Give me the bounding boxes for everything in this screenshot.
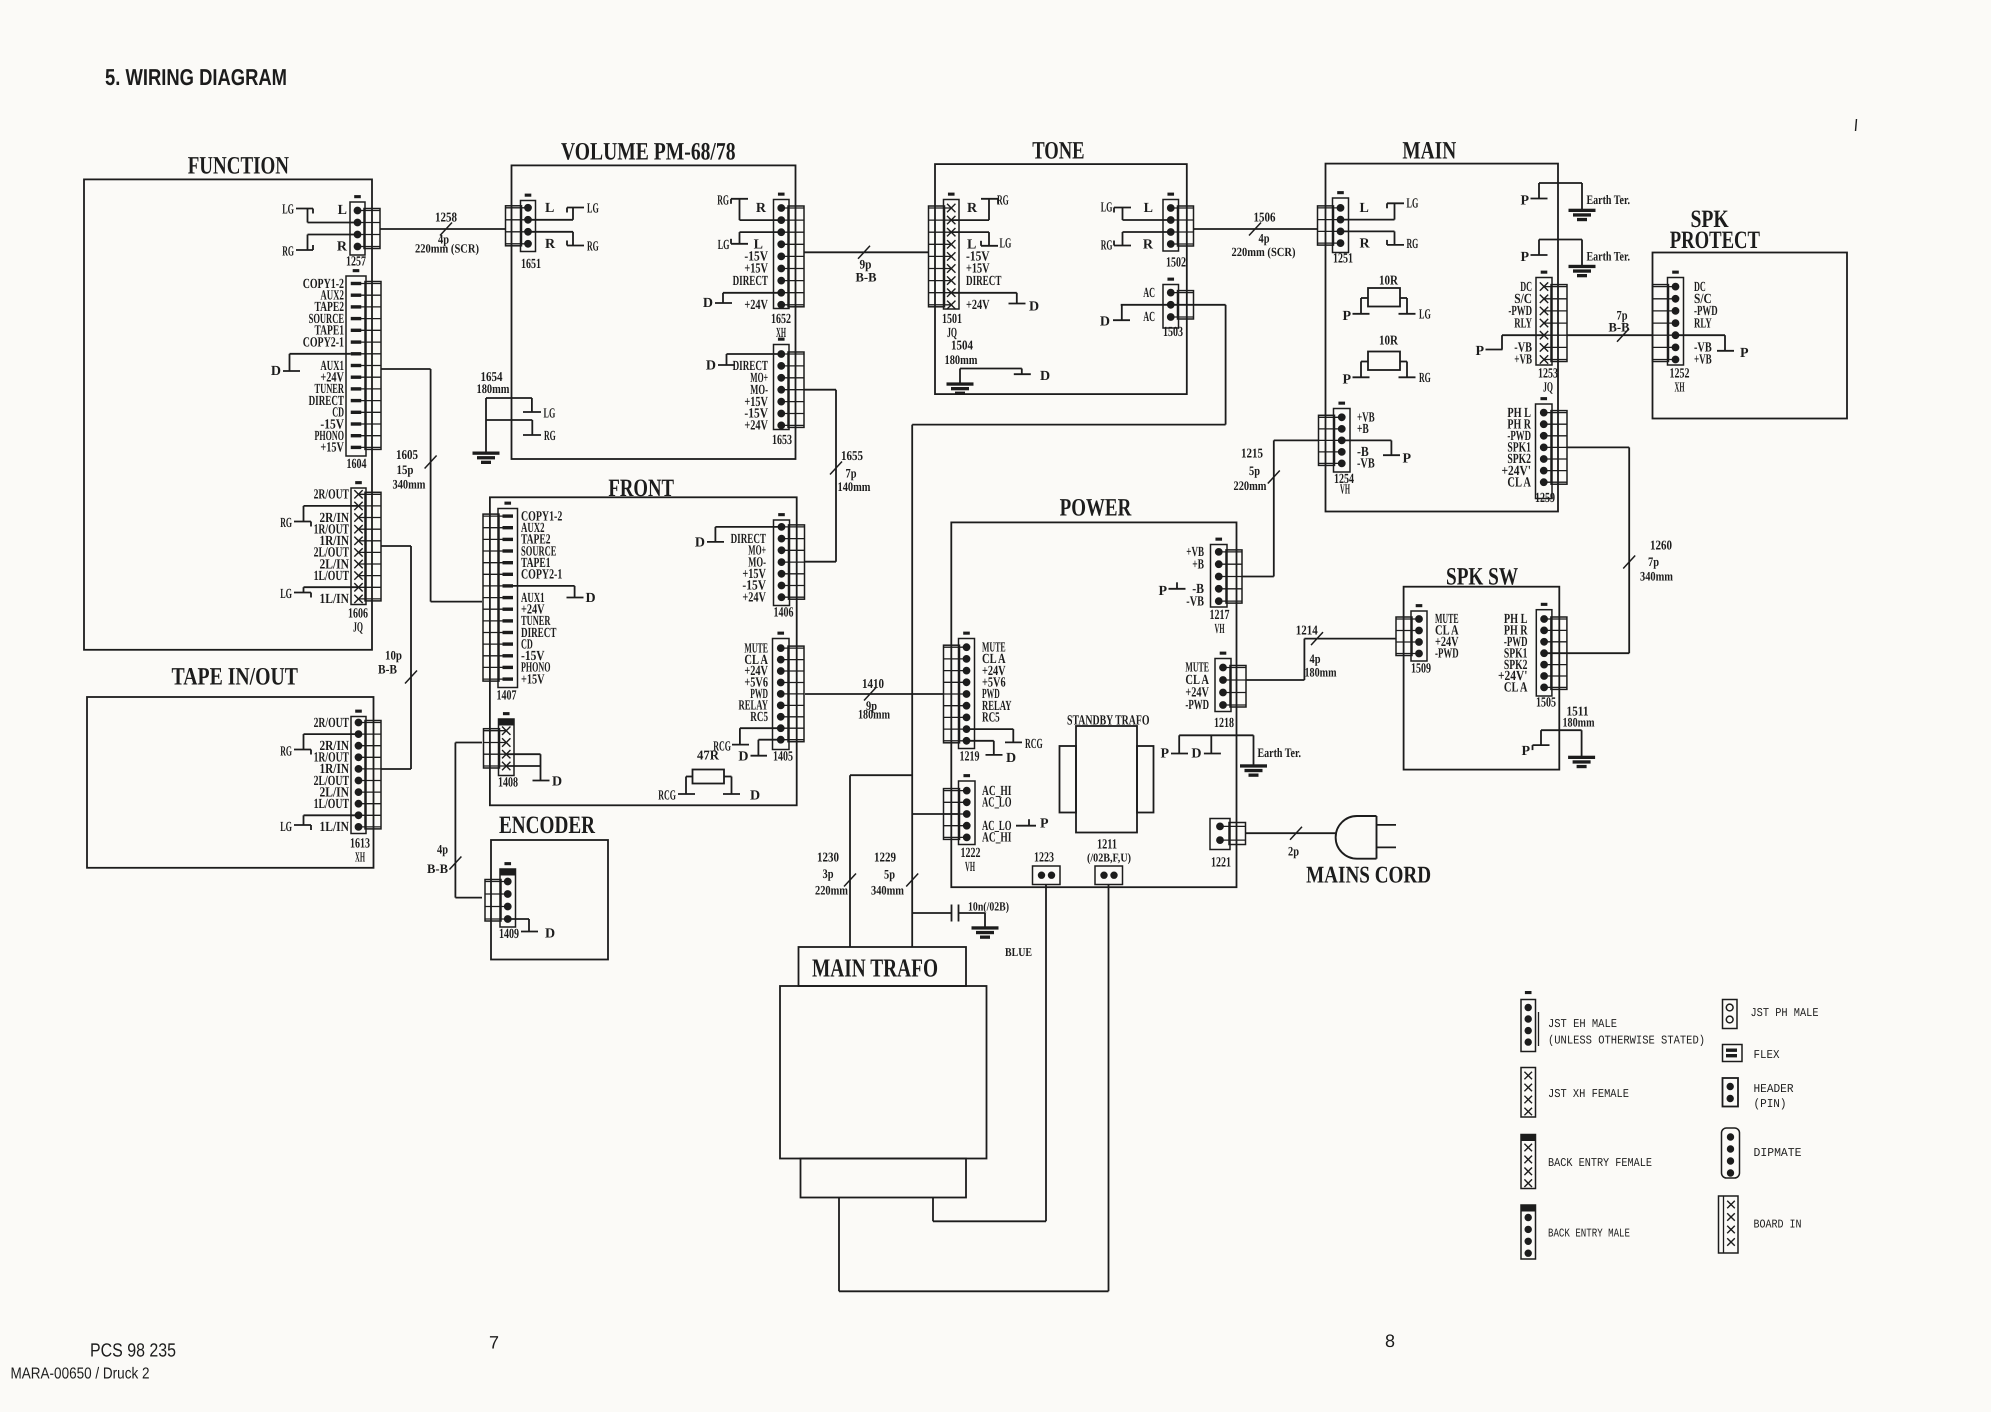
node RCG (1219 pin8)	[967, 729, 1043, 752]
svg-text:D: D	[1040, 369, 1050, 384]
svg-text:1410: 1410	[862, 676, 884, 691]
node LG (1502)	[1101, 201, 1172, 221]
svg-text:COPY2-1: COPY2-1	[521, 568, 562, 583]
svg-text:220mm (SCR): 220mm (SCR)	[1232, 245, 1296, 259]
svg-text:1222: 1222	[961, 846, 981, 861]
cable 7p B-B wire	[1568, 334, 1653, 336]
connector 1652 (JST XH male 9p)	[774, 193, 805, 308]
resistor 10R lower	[1353, 352, 1416, 378]
svg-text:AC: AC	[1143, 286, 1155, 301]
connector 1253 (JST XH female 7p JQ)	[1536, 271, 1567, 365]
svg-text:180mm: 180mm	[858, 707, 890, 722]
svg-text:+24V: +24V	[742, 590, 766, 605]
node D (1653 pin1)	[706, 354, 782, 373]
svg-text:FUNCTION: FUNCTION	[188, 153, 289, 180]
cable 1506 wire	[1194, 228, 1317, 230]
svg-text:P: P	[1520, 194, 1529, 209]
svg-text:LG: LG	[718, 238, 730, 253]
svg-text:JQ: JQ	[353, 621, 363, 636]
svg-text:DIRECT: DIRECT	[966, 274, 1002, 289]
svg-text:1L/IN: 1L/IN	[320, 592, 350, 607]
legend HEADER (PIN) symbol	[1723, 1078, 1739, 1107]
svg-text:1653: 1653	[772, 433, 792, 448]
svg-text:47R: 47R	[697, 748, 719, 763]
svg-text:P: P	[1342, 373, 1351, 388]
svg-text:VH: VH	[1215, 622, 1225, 637]
connector 1254 (VH male 5p)	[1319, 402, 1351, 472]
connector 1503 (JST EH male 3p)	[1163, 278, 1194, 328]
node D (1405 pin9)	[738, 740, 781, 765]
svg-text:D: D	[1100, 314, 1110, 329]
svg-text:340mm: 340mm	[1640, 569, 1673, 584]
svg-text:1219: 1219	[960, 750, 980, 765]
svg-text:RG: RG	[544, 429, 556, 444]
svg-text:LG: LG	[282, 202, 294, 217]
mains plug	[1336, 816, 1396, 859]
wire SPK1 out (1505)	[1544, 652, 1629, 654]
cable 4p B-B slash	[449, 857, 461, 870]
svg-text:340mm: 340mm	[871, 883, 904, 898]
svg-text:1230: 1230	[817, 850, 839, 865]
cable 1258 wire	[380, 228, 506, 230]
transformer STANDBY TRAFO	[1060, 726, 1154, 833]
cable 9p B-B slash	[858, 246, 870, 259]
svg-text:220mm (SCR): 220mm (SCR)	[415, 242, 479, 256]
svg-text:MARA-00650 / Druck 2: MARA-00650 / Druck 2	[11, 1366, 150, 1383]
svg-text:B-B: B-B	[427, 861, 448, 876]
connector 1211 (2p header)	[1095, 866, 1123, 885]
svg-text:15p: 15p	[397, 462, 414, 477]
node D (1407 pin7)	[512, 586, 596, 606]
svg-text:RG: RG	[282, 245, 294, 260]
wire 1504 shield	[960, 369, 1031, 383]
svg-text:1506: 1506	[1254, 210, 1276, 225]
svg-text:RG: RG	[280, 516, 292, 531]
svg-text:1215: 1215	[1241, 445, 1263, 460]
svg-text:1503: 1503	[1163, 325, 1183, 340]
connector 1405 (JST EH male 9p)	[773, 632, 805, 749]
svg-text:XH: XH	[1675, 381, 1685, 396]
svg-text:RG: RG	[717, 194, 729, 209]
svg-text:SPK SW: SPK SW	[1446, 564, 1518, 591]
svg-text:Earth Ter.: Earth Ter.	[1587, 192, 1631, 207]
svg-text:P: P	[1040, 817, 1049, 832]
svg-text:D: D	[552, 775, 562, 790]
transformer MAIN TRAFO body	[780, 986, 987, 1159]
svg-text:D: D	[545, 927, 555, 942]
legend BACK ENTRY FEMALE symbol	[1521, 1135, 1536, 1189]
svg-text:ENCODER: ENCODER	[499, 812, 596, 839]
svg-text:1502: 1502	[1166, 256, 1186, 271]
svg-text:-PWD: -PWD	[1435, 647, 1459, 662]
svg-text:POWER: POWER	[1060, 495, 1132, 522]
connector 1223 (2p header)	[1033, 866, 1061, 885]
ground 1511	[1569, 756, 1595, 758]
svg-text:5p: 5p	[884, 867, 895, 882]
connector 1505 (JST EH male 7p)	[1536, 603, 1567, 696]
node RG (1606)	[280, 506, 358, 531]
cable 1260 slash	[1623, 556, 1635, 569]
svg-text:180mm: 180mm	[477, 381, 510, 396]
svg-text:10R: 10R	[1379, 333, 1398, 348]
svg-text:P: P	[1740, 346, 1749, 361]
board box TAPE IN/OUT	[87, 697, 374, 868]
svg-text:JST PH MALE: JST PH MALE	[1751, 1006, 1819, 1020]
svg-text:D: D	[271, 364, 281, 379]
svg-text:CL A: CL A	[1507, 475, 1531, 490]
svg-text:P: P	[1403, 452, 1412, 467]
connector 1653 (JST EH male 7p)	[774, 338, 805, 429]
svg-text:Earth Ter.: Earth Ter.	[1258, 745, 1302, 760]
connector 1502 (JST EH male 4p)	[1163, 193, 1194, 251]
svg-text:L: L	[1144, 201, 1153, 216]
earth terminal 1 wire	[1531, 183, 1583, 209]
svg-text:1L/OUT: 1L/OUT	[314, 569, 350, 584]
node LG (1251)	[1341, 197, 1418, 220]
connector 1217 (VH male 5p)	[1211, 538, 1243, 607]
node D (1652 pin8)	[703, 293, 782, 311]
board box FRONT	[490, 497, 797, 805]
svg-text:1257: 1257	[346, 255, 366, 270]
cable 2p slash	[1290, 827, 1302, 840]
cable 1605 wire	[381, 369, 482, 602]
node LG (1501)	[952, 232, 1012, 251]
svg-text:+15V: +15V	[521, 672, 545, 687]
connector 1219 (JST EH male 9p)	[944, 632, 975, 748]
svg-text:+24V: +24V	[744, 298, 768, 313]
svg-text:P: P	[1521, 744, 1530, 759]
svg-text:RCG: RCG	[1025, 737, 1043, 752]
svg-text:MAIN TRAFO: MAIN TRAFO	[812, 954, 938, 983]
svg-text:P: P	[1475, 344, 1484, 359]
cable 9p B-B wire	[805, 251, 929, 253]
node D (1219 pin9)	[967, 741, 1016, 766]
cable 1605 slash	[425, 456, 437, 469]
connector 1251 (JST EH male 4p)	[1318, 192, 1349, 253]
connector 1606 (JST XH female 10p JQ)	[351, 482, 381, 605]
svg-text:180mm: 180mm	[1305, 665, 1337, 680]
node D (1501 pin8)	[952, 293, 1040, 315]
cable 1260 wire	[1568, 447, 1630, 653]
connector 1407 (board-in 15p)	[483, 502, 518, 687]
svg-text:1405: 1405	[773, 750, 793, 765]
svg-text:RC5: RC5	[750, 710, 768, 725]
svg-text:D: D	[750, 789, 760, 804]
svg-text:VOLUME PM-68/78: VOLUME PM-68/78	[561, 139, 736, 166]
legend DIPMATE symbol	[1722, 1128, 1740, 1178]
node D (1408)	[506, 754, 562, 789]
svg-text:1409: 1409	[499, 927, 519, 942]
svg-text:+B: +B	[1357, 422, 1369, 437]
legend JST PH MALE symbol	[1723, 1000, 1738, 1029]
svg-text:1605: 1605	[396, 447, 418, 462]
svg-text:+VB: +VB	[1694, 353, 1712, 368]
svg-text:1260: 1260	[1650, 538, 1672, 553]
svg-text:R: R	[967, 201, 978, 216]
cable 10p B-B slash	[405, 671, 417, 684]
svg-text:5. WIRING DIAGRAM: 5. WIRING DIAGRAM	[105, 64, 287, 90]
svg-text:FLEX: FLEX	[1754, 1048, 1780, 1062]
cable 1229 wire	[911, 814, 913, 947]
cable 1215 wire	[1243, 440, 1319, 576]
svg-text:1217: 1217	[1210, 608, 1230, 623]
node RG (1651)	[528, 232, 599, 255]
node RCG (1405 pin8)	[713, 728, 781, 754]
svg-text:10R: 10R	[1379, 273, 1398, 288]
svg-text:P: P	[1520, 250, 1529, 265]
svg-text:-VB: -VB	[1186, 594, 1204, 609]
node RG (1613)	[280, 734, 358, 759]
legend BACK ENTRY MALE symbol	[1521, 1205, 1536, 1259]
cable 1229 slash	[906, 874, 918, 887]
svg-text:BOARD IN: BOARD IN	[1754, 1218, 1802, 1232]
svg-text:L: L	[545, 201, 554, 216]
svg-text:FRONT: FRONT	[608, 475, 674, 502]
node RG (1251)	[1341, 231, 1418, 252]
node LG (1606)	[280, 587, 358, 602]
ground cap	[972, 927, 998, 929]
svg-text:MAIN: MAIN	[1402, 138, 1456, 165]
svg-text:1606: 1606	[348, 607, 368, 622]
board box SPK SW	[1404, 587, 1560, 770]
connector 1501 (JST XH female 9p JQ)	[929, 193, 960, 309]
svg-text:TONE: TONE	[1032, 138, 1084, 165]
svg-text:L: L	[1360, 201, 1369, 216]
svg-text:D: D	[738, 750, 748, 765]
ground 1654	[473, 452, 499, 454]
connector 1613 (JST XH male 10p)	[351, 710, 381, 833]
svg-text:+B: +B	[1192, 557, 1204, 572]
connector 1406 (JST EH male 7p)	[774, 514, 805, 606]
resistor 10R upper	[1353, 288, 1416, 314]
svg-text:VH: VH	[965, 860, 975, 875]
connector 1252 (JST XH male 7p)	[1653, 271, 1684, 365]
svg-text:10p: 10p	[385, 648, 402, 663]
connector 1408 (back entry female 4p)	[484, 713, 515, 776]
svg-text:1505: 1505	[1536, 696, 1556, 711]
svg-text:RG: RG	[587, 240, 599, 255]
board box MAIN	[1326, 164, 1559, 512]
wire AC net	[912, 305, 1225, 814]
legend JST XH FEMALE symbol	[1521, 1068, 1536, 1118]
cable 1214 wire	[1247, 639, 1396, 680]
svg-text:1252: 1252	[1670, 367, 1690, 382]
svg-text:DIRECT: DIRECT	[733, 274, 769, 289]
svg-text:1408: 1408	[498, 776, 518, 791]
svg-text:R: R	[337, 240, 348, 255]
cable 1655 slash	[830, 462, 842, 475]
node D (1409)	[508, 919, 556, 942]
svg-text:XH: XH	[355, 851, 365, 866]
cable 1215 slash	[1268, 471, 1280, 484]
svg-text:180mm: 180mm	[945, 352, 978, 367]
board box ENCODER	[491, 840, 608, 960]
svg-text:D: D	[1029, 300, 1039, 315]
svg-text:LG: LG	[280, 820, 292, 835]
svg-text:R: R	[1143, 238, 1154, 253]
connector 1221 (2p)	[1210, 819, 1246, 850]
svg-text:COPY2-1: COPY2-1	[303, 335, 344, 350]
svg-text:B-B: B-B	[378, 662, 397, 677]
connector 1257 (JST EH male 4p)	[350, 196, 380, 255]
svg-text:+15V: +15V	[320, 441, 344, 456]
svg-text:BACK ENTRY FEMALE: BACK ENTRY FEMALE	[1548, 1156, 1652, 1170]
svg-text:4p: 4p	[437, 842, 448, 857]
svg-text:D: D	[586, 591, 596, 606]
node D (1604 pin7)	[271, 354, 351, 379]
svg-text:B-B: B-B	[856, 270, 877, 285]
svg-text:P: P	[1158, 584, 1167, 599]
svg-text:1251: 1251	[1333, 251, 1353, 266]
wire trafo right lead to 1223	[933, 885, 1046, 1222]
svg-text:TAPE IN/OUT: TAPE IN/OUT	[172, 664, 299, 691]
svg-text:2R/OUT: 2R/OUT	[314, 488, 350, 503]
svg-text:RG: RG	[1419, 371, 1431, 386]
cable 1655 wire	[805, 390, 837, 562]
svg-text:1407: 1407	[497, 689, 517, 704]
svg-text:LG: LG	[587, 202, 599, 217]
svg-text:2p: 2p	[1288, 844, 1299, 859]
svg-text:(/02B,F,U): (/02B,F,U)	[1087, 851, 1131, 865]
cable 1506 slash	[1249, 223, 1261, 236]
svg-text:JST XH FEMALE: JST XH FEMALE	[1548, 1087, 1629, 1101]
transformer MAIN TRAFO flange	[801, 1159, 967, 1198]
svg-text:P: P	[1160, 747, 1169, 762]
ground power earth ter	[1241, 765, 1267, 767]
board box FUNCTION	[84, 179, 372, 649]
svg-text:JQ: JQ	[1543, 381, 1553, 396]
svg-text:+VB: +VB	[1514, 353, 1532, 368]
svg-text:+24V: +24V	[744, 419, 768, 434]
svg-text:CL A: CL A	[1504, 681, 1528, 696]
resistor 47R	[678, 770, 740, 795]
svg-text:R: R	[545, 237, 556, 252]
svg-text:RLY: RLY	[1694, 316, 1712, 331]
svg-text:AC_HI: AC_HI	[982, 831, 1012, 846]
svg-text:3p: 3p	[823, 866, 834, 881]
svg-text:1604: 1604	[347, 457, 367, 472]
svg-text:AC_LO: AC_LO	[982, 796, 1012, 811]
svg-text:BLUE: BLUE	[1005, 945, 1032, 959]
node LG (1613)	[280, 815, 358, 835]
svg-text:PROTECT: PROTECT	[1670, 227, 1761, 254]
svg-text:RC5: RC5	[982, 711, 1000, 726]
svg-text:4p: 4p	[1259, 230, 1270, 245]
cable 2p wire	[1246, 832, 1338, 834]
svg-text:1229: 1229	[874, 850, 896, 865]
svg-text:5p: 5p	[1249, 463, 1260, 478]
svg-text:RCG: RCG	[658, 789, 676, 804]
connector 1604 (board-in 15p)	[346, 270, 381, 456]
svg-text:VH: VH	[1340, 483, 1350, 498]
node P (1254 pin3)	[1342, 440, 1412, 466]
svg-text:R: R	[1360, 237, 1371, 252]
cable 7p B-B slash	[1617, 329, 1629, 342]
cable 4p B-B wire	[455, 743, 482, 898]
svg-text:RG: RG	[1101, 239, 1113, 254]
cable 1258 slash	[440, 223, 452, 236]
svg-text:D: D	[1006, 751, 1016, 766]
svg-text:MAINS CORD: MAINS CORD	[1306, 863, 1431, 889]
svg-text:2R/OUT: 2R/OUT	[314, 716, 350, 731]
ground earth ter 2	[1569, 265, 1595, 267]
svg-text:L: L	[338, 203, 347, 218]
legend BOARD IN symbol	[1719, 1196, 1739, 1253]
svg-text:1501: 1501	[942, 312, 962, 327]
node P (1252 pin5)	[1676, 335, 1749, 361]
svg-text:RG: RG	[1407, 237, 1419, 252]
svg-text:AC: AC	[1143, 310, 1155, 325]
svg-text:340mm: 340mm	[393, 477, 426, 492]
svg-text:7: 7	[489, 1333, 499, 1353]
svg-text:1L/OUT: 1L/OUT	[314, 797, 350, 812]
cable 1410 slash	[864, 688, 876, 701]
node LG (1651)	[528, 202, 599, 220]
node P (1222 pin4)	[1016, 817, 1049, 832]
svg-text:1258: 1258	[435, 209, 457, 224]
svg-text:JST EH MALE: JST EH MALE	[1548, 1017, 1617, 1031]
node RG (1501)	[952, 194, 1009, 220]
svg-text:1214: 1214	[1296, 623, 1318, 638]
svg-text:1652: 1652	[771, 312, 791, 327]
wire 1654 shield	[486, 398, 541, 452]
svg-text:LG: LG	[280, 587, 292, 602]
connector 1509 (JST EH male 4p)	[1396, 605, 1427, 661]
cable 1410 wire	[805, 693, 944, 695]
svg-text:RLY: RLY	[1514, 316, 1532, 331]
svg-text:1259: 1259	[1535, 491, 1555, 506]
connector 1222 (VH male 5p)	[944, 775, 976, 845]
svg-text:(PIN): (PIN)	[1754, 1097, 1787, 1111]
svg-text:1218: 1218	[1214, 716, 1234, 731]
svg-text:180mm: 180mm	[1563, 714, 1595, 729]
node D (1503 pin2)	[1100, 305, 1172, 330]
svg-text:10n(/02B): 10n(/02B)	[968, 900, 1009, 914]
cable 1214 slash	[1311, 632, 1323, 645]
cable 1230 wire	[850, 775, 912, 947]
board box TONE	[935, 164, 1187, 394]
wire trafo left lead to 1211	[839, 885, 1109, 1292]
connector 1218 (JST EH male 4p)	[1215, 652, 1246, 711]
svg-text:(UNLESS OTHERWISE STATED): (UNLESS OTHERWISE STATED)	[1548, 1034, 1705, 1048]
svg-text:1651: 1651	[521, 257, 541, 272]
capacitor 10n	[952, 905, 959, 922]
svg-text:1509: 1509	[1411, 662, 1431, 677]
svg-text:BACK ENTRY MALE: BACK ENTRY MALE	[1548, 1227, 1630, 1241]
node P (1217 pin4)	[1158, 582, 1185, 599]
svg-text:LG: LG	[1419, 308, 1431, 323]
svg-text:B-B: B-B	[1609, 320, 1630, 335]
node RG (1652)	[717, 194, 781, 220]
node P (1253 pin5)	[1475, 335, 1544, 359]
svg-text:D: D	[695, 535, 705, 550]
cable 1230 slash	[844, 874, 856, 887]
svg-text:1223: 1223	[1034, 851, 1054, 866]
svg-text:8: 8	[1385, 1331, 1395, 1351]
svg-text:-VB: -VB	[1357, 457, 1375, 472]
svg-text:220mm: 220mm	[815, 883, 848, 898]
svg-text:LG: LG	[1407, 197, 1419, 212]
svg-text:D: D	[1191, 747, 1201, 762]
earth terminal 2 wire	[1531, 240, 1583, 266]
svg-text:1406: 1406	[774, 606, 794, 621]
svg-text:R: R	[756, 201, 767, 216]
svg-text:LG: LG	[544, 406, 556, 421]
legend FLEX symbol	[1723, 1045, 1743, 1062]
svg-text:1253: 1253	[1538, 367, 1558, 382]
svg-text:-PWD: -PWD	[1185, 698, 1209, 713]
svg-text:HEADER: HEADER	[1754, 1082, 1794, 1096]
